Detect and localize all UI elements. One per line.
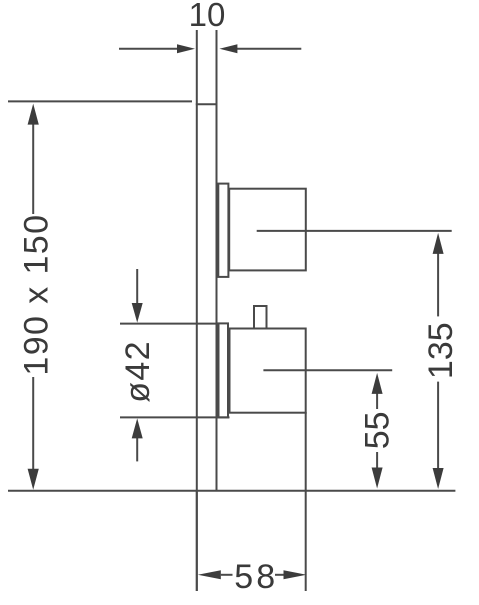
arrowhead 58 left (points left): [198, 570, 221, 579]
dim 58 line left segment: [221, 574, 233, 576]
svg-text:58: 58: [234, 558, 278, 596]
arrowhead o42 top (points down): [132, 303, 143, 323]
extension line top (190 dim): [8, 100, 192, 102]
dim o42 line upper segment: [136, 269, 138, 304]
dim o42 ext line bottom: [120, 416, 230, 418]
wall plate left line: [196, 30, 198, 591]
dim 55 line upper segment: [376, 393, 378, 409]
arrowhead o42 bottom (points up): [132, 418, 143, 438]
svg-text:ø42: ø42: [119, 340, 157, 403]
wall plate top edge: [196, 103, 218, 105]
dim o42 line lower segment: [136, 438, 138, 461]
arrowhead 190 bottom (points down): [28, 469, 39, 490]
upper valve body: [229, 189, 306, 271]
dim 190x150 line upper segment: [32, 124, 34, 214]
dim 10 right arrow line: [237, 48, 301, 50]
knob on lower body: [254, 306, 267, 329]
arrowhead 190 top (points up): [28, 104, 39, 125]
arrowhead 55 top (points up): [372, 373, 383, 394]
dim 58 line right segment: [275, 574, 284, 576]
svg-text:190 x 150: 190 x 150: [18, 214, 56, 376]
lower valve body: [230, 329, 306, 413]
arrowhead 135 bottom (points down): [433, 468, 444, 489]
arrowhead 55 bottom (points down): [372, 468, 383, 489]
lower flange: [219, 323, 229, 417]
arrowhead 10 right (points left): [219, 44, 237, 53]
dim 135 line lower segment: [437, 382, 439, 469]
dim 58 ext line left: [196, 491, 198, 591]
arrowhead 10 left (points right): [177, 44, 195, 53]
leader line 135: [257, 230, 452, 232]
svg-text:135: 135: [422, 322, 460, 379]
dim 10 left arrow line: [119, 48, 178, 50]
svg-text:55: 55: [358, 411, 396, 449]
upper flange: [218, 184, 228, 277]
extension line bottom (shared): [8, 490, 455, 492]
dim 190x150 line lower segment: [32, 377, 34, 470]
dim 135 line upper segment: [437, 253, 439, 316]
arrowhead 58 right (points right): [284, 570, 307, 579]
dim 55 line lower segment: [376, 452, 378, 468]
wall plate right line: [216, 30, 218, 491]
arrowhead 135 top (points up): [433, 233, 444, 254]
svg-text:10: 10: [189, 0, 226, 33]
dim 58 ext line right: [305, 412, 307, 591]
leader line 55: [263, 369, 392, 371]
dim o42 ext line top: [120, 323, 219, 325]
